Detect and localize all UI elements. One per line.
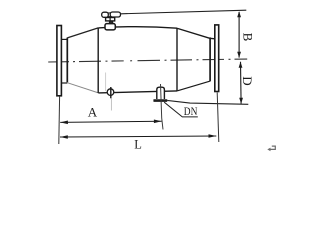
valve V1 handle left lobe bbox=[102, 12, 109, 17]
right hub face bbox=[209, 37, 211, 81]
valve V1 neck bbox=[109, 21, 113, 24]
dimension line L bbox=[60, 136, 216, 137]
body bottom edge bbox=[98, 91, 177, 93]
drain bottom line to D tick bbox=[167, 100, 248, 104]
body right weld seam bbox=[176, 28, 178, 91]
plug axis lower faint line bbox=[110, 99, 112, 111]
drain nozzle dome bbox=[157, 87, 165, 99]
flange F2 (right flange) bbox=[215, 25, 219, 92]
return mark (gray pilcrow arrow) bbox=[267, 146, 275, 151]
body top edge bbox=[98, 27, 177, 29]
centerline (horizontal dash-dot axis) bbox=[48, 59, 247, 62]
left cone top edge bbox=[67, 28, 98, 38]
svg-text:L: L bbox=[134, 137, 142, 151]
dimension line B bbox=[238, 12, 240, 58]
right cone bottom edge bbox=[177, 81, 210, 91]
svg-text:DN: DN bbox=[184, 104, 198, 118]
left neck bottom stub bbox=[61, 82, 67, 84]
valve V1 packing nut bbox=[106, 18, 115, 21]
left hub face bbox=[66, 38, 68, 83]
left cone bottom edge bbox=[67, 83, 98, 93]
svg-text:B: B bbox=[240, 33, 255, 42]
left neck top stub bbox=[61, 38, 67, 40]
flange F1 (left flange) bbox=[57, 26, 62, 96]
plug axis upper faint line bbox=[105, 73, 107, 92]
valve V1 handle connector bbox=[108, 13, 111, 17]
plug P1 (phi symbol on body bottom) bbox=[107, 89, 114, 96]
svg-text:A: A bbox=[88, 104, 98, 119]
valve V1 collar bbox=[105, 24, 115, 30]
right extension line for L bbox=[217, 93, 219, 143]
drain axis / A extension line bbox=[161, 84, 164, 130]
right cone top edge bbox=[177, 28, 215, 39]
dimension line A bbox=[60, 121, 161, 122]
valve V1 handle right lobe bbox=[110, 12, 120, 17]
dimension line D bbox=[240, 62, 243, 104]
extension line from valve handle to B dimension bbox=[121, 10, 246, 14]
leader line to DN bbox=[164, 102, 198, 117]
body left weld seam bbox=[97, 28, 99, 93]
left extension line for A and L bbox=[58, 96, 61, 144]
drain flange bar bbox=[153, 99, 167, 102]
svg-text:D: D bbox=[240, 76, 255, 85]
